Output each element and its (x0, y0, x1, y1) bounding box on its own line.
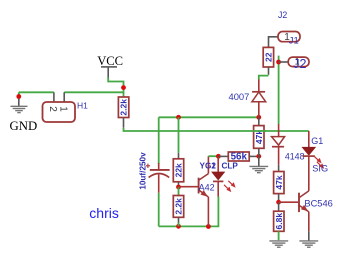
wire line1 horizontal (159, 116, 259, 118)
resistor 6.8k body (274, 211, 284, 231)
ground symbol at 56k (249, 166, 268, 172)
transistor BC546 base wire (279, 201, 299, 203)
resistor 2.2k (lower) body (173, 196, 183, 218)
svg-text:SIG: SIG (312, 163, 328, 173)
svg-text:H1: H1 (77, 101, 88, 111)
wire H1 pin1 to VCC column (64, 91, 123, 93)
wire capacitor bottom (158, 193, 160, 227)
wire line2 over 47k (253, 130, 267, 132)
resistor 56k body (228, 152, 249, 161)
svg-text:22: 22 (263, 52, 273, 62)
wire 6.8k to ground (278, 231, 280, 240)
resistor 2.2k bottom lead (123, 118, 125, 128)
transistor A42 emitter arrow (201, 190, 208, 197)
svg-text:1: 1 (211, 161, 216, 170)
svg-text:56k: 56k (231, 152, 248, 163)
LED G1 triangle (302, 147, 315, 155)
LED G1 arrows (314, 156, 324, 169)
node dot 22k/2.2k/base (176, 185, 181, 190)
connector H1 pin 1 lead (63, 92, 65, 102)
svg-text:G1: G1 (311, 136, 323, 146)
svg-text:1: 1 (58, 106, 69, 112)
wire stub above J2 node (278, 56, 280, 62)
ground symbol at 6.8k (269, 241, 288, 247)
svg-text:J2: J2 (278, 10, 287, 20)
capacitor C1 leads and plates (158, 163, 160, 170)
svg-text:22k: 22k (174, 163, 184, 177)
wire VCC to R1 column (108, 78, 123, 98)
svg-text:2: 2 (47, 106, 58, 112)
svg-text:CLP: CLP (222, 161, 239, 170)
wire J2 node down (278, 62, 280, 124)
svg-text:A42: A42 (199, 182, 215, 192)
wire bottom rail (159, 197, 219, 227)
LED YG2 bottom lead (217, 181, 219, 196)
wire A42 emitter down (207, 197, 209, 226)
svg-text:10uf/250v: 10uf/250v (139, 152, 148, 190)
LED YG2 arrows (224, 181, 236, 192)
wire G1 feed (308, 131, 310, 147)
resistor 47k (upper) body (254, 126, 264, 149)
resistor 47k lower bottom lead (278, 194, 280, 203)
svg-text:J2: J2 (293, 57, 306, 71)
svg-text:J1: J1 (289, 35, 299, 46)
svg-text:6.8k: 6.8k (274, 213, 284, 230)
resistor 47k (lower) body (274, 172, 284, 194)
wire collector corner to node (208, 155, 216, 157)
resistor 56k lead right (249, 155, 259, 157)
svg-text:GND: GND (10, 119, 38, 133)
wire GND to H1 pin2 (19, 91, 54, 93)
wire dot to 2.2k (178, 187, 180, 196)
node dot 56k right (256, 154, 261, 159)
wire node to 6.8k (278, 202, 280, 211)
transistor A42 (199, 174, 209, 197)
node dot rail/A42 emitter (206, 224, 211, 229)
wire 4148 to 47k (278, 165, 280, 172)
diode 4007 (258, 79, 260, 91)
wire BC546 emitter down (308, 212, 310, 232)
diode 4148 (272, 137, 285, 146)
wire A42 collector up (207, 156, 209, 173)
resistor 2.2k lower bottom lead (178, 217, 180, 223)
ground stem at 56k (258, 156, 260, 166)
connector H1 body (43, 102, 76, 122)
connector pin J2 body (288, 57, 309, 67)
svg-text:chris: chris (89, 205, 119, 221)
svg-text:BC546: BC546 (304, 198, 332, 208)
connector pin J1 body (278, 32, 300, 42)
svg-text:2.2k: 2.2k (119, 99, 129, 116)
svg-text:47k: 47k (274, 175, 284, 189)
node VCC junction dot (121, 85, 126, 90)
node dot 56k/LED (216, 154, 221, 159)
svg-text:4007: 4007 (229, 91, 250, 102)
resistor 47k bottom lead (258, 148, 260, 156)
LED YG2 triangle (212, 172, 225, 180)
node dot line1/22k (176, 115, 181, 120)
resistor 22k body (173, 159, 183, 182)
svg-text:2.2k: 2.2k (174, 198, 184, 215)
resistor 56k lead left (218, 155, 228, 157)
resistor 22 top lead + J1 corner (269, 37, 279, 48)
ground symbol at BC546 (299, 241, 318, 247)
capacitor plus sign (146, 164, 150, 168)
LED YG2 top lead (217, 156, 219, 172)
node dot base (276, 200, 281, 205)
ground GND symbol (11, 106, 28, 112)
wire 22k column (178, 117, 180, 153)
LED YG2 cathode bar (213, 180, 223, 182)
node dot rail/2.2k (176, 224, 181, 229)
node dot J2 (276, 60, 281, 65)
connector pin J2 lead (279, 61, 289, 63)
node GND junction dot (16, 94, 21, 99)
transistor BC546 (299, 191, 309, 212)
wire 22 to diode 4007 (259, 76, 269, 80)
power VCC symbol bar (101, 66, 117, 68)
LED G1 cathode bar (303, 155, 315, 157)
node dot line1/diode col (256, 115, 261, 120)
resistor 22 body (263, 47, 273, 67)
resistor 2.2k (VCC) body (118, 97, 128, 118)
ground GND stem (18, 92, 20, 99)
transistor BC546 emitter arrow (301, 205, 308, 212)
resistor 22 bottom lead (268, 67, 270, 75)
wire G1 to BC546 collector (308, 156, 310, 191)
wire diode col: 47k top (258, 117, 260, 125)
wire line2 horizontal (124, 128, 309, 131)
svg-text:4148: 4148 (285, 151, 305, 161)
transistor A42 base wire (179, 186, 199, 188)
wire capacitor column top (158, 117, 160, 164)
resistor 22k bottom lead (178, 182, 180, 187)
connector H1 pin 2 lead (53, 92, 55, 102)
